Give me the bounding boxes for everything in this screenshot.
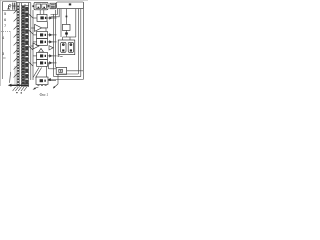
wire U2-U3 (48, 5, 50, 7)
svg-text:Фиг.1: Фиг.1 (40, 93, 49, 97)
relay K6 (bottom) (36, 77, 48, 84)
symbol inside U1 (7, 4, 11, 9)
bus wires from U4 (75, 9, 77, 37)
arrow A2 (39, 48, 44, 52)
box D1 (62, 24, 70, 30)
wire U3 to right unit (56, 5, 57, 7)
left boundary wire (2, 2, 4, 79)
relay pair K4 (37, 52, 48, 59)
rail dots (17, 6, 19, 86)
block U2 (top middle, two cells) (34, 2, 48, 9)
relay pair K3 (37, 38, 48, 45)
unit U5 (right middle box with two tubes) (58, 40, 75, 55)
wires K2/K3 right (47, 34, 56, 36)
ladder foot hatch (13, 87, 27, 91)
junction block (65, 32, 68, 34)
slash S2 (36, 68, 42, 78)
base arrowhead (8, 84, 12, 87)
relay pair K5 (37, 59, 48, 66)
arrow to ladder foot (9, 72, 12, 83)
dashed guide (1, 31, 11, 33)
scan border top (0, 0, 88, 1)
staircase wire W3 (60, 9, 62, 37)
wire U2 down (39, 10, 41, 15)
amp T2 (49, 46, 53, 50)
horizontal bus y37 (63, 36, 76, 38)
bus wire V6 (55, 10, 57, 67)
unit U4 (top right long block) (57, 2, 84, 9)
wire U6 to bus (67, 70, 84, 72)
staircase wire W2 (51, 9, 60, 17)
ladder rungs (21, 5, 28, 83)
wire below U6 (57, 74, 59, 84)
ladder cell column frame (20, 3, 22, 87)
block U1 (top-left box) (3, 2, 17, 11)
tick on feed wire (66, 16, 68, 18)
ticks under K6 (37, 85, 46, 87)
pointer arrow (35, 87, 39, 88)
relay pair K2 (37, 31, 48, 38)
ladder dark cells (22, 6, 28, 87)
wire K5 to U6 (49, 68, 57, 70)
ladder rail L2 (18, 3, 20, 88)
foot dots (16, 92, 17, 93)
wire to D1 (65, 9, 67, 25)
label 1a (12, 3, 15, 10)
ladder right rail R1 (30, 3, 32, 80)
staircase wire W1 (51, 9, 58, 15)
ladder rail L1 (16, 3, 18, 88)
ladder base bar (10, 84, 28, 86)
ladder right rail R2 (32, 10, 34, 80)
relay K1 (37, 14, 47, 21)
unit U6 (bottom right box) (56, 67, 66, 74)
hatch ticks left of ladder (14, 10, 17, 77)
wire down to K6 (46, 66, 48, 77)
block U3 (small box right of U2) (50, 3, 56, 9)
bus bottom bends (58, 73, 78, 75)
scan border left (0, 0, 1, 86)
diagonal links ladder to rails (29, 14, 33, 66)
amp T1 (35, 24, 42, 31)
ladder top cap (16, 2, 30, 4)
bus wire V5 (53, 14, 55, 77)
wires K4/K5 (47, 55, 56, 57)
amp T3 (33, 43, 39, 49)
guide line near ladder foot (14, 66, 16, 85)
slash S1 (33, 68, 39, 78)
